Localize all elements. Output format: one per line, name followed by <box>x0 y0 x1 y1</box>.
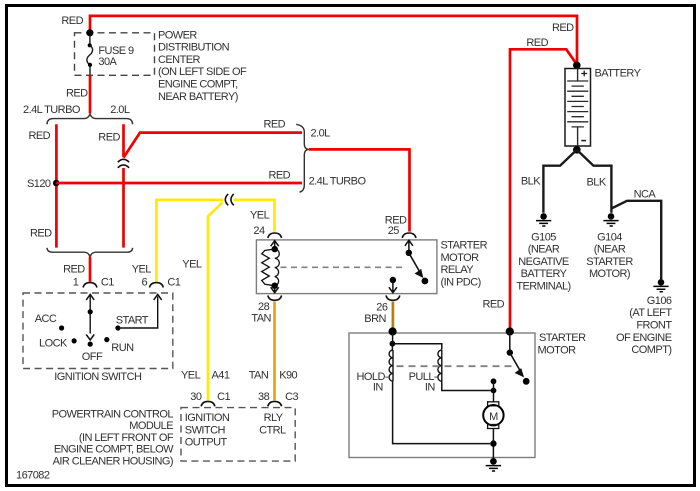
ignition switch wiper arrow down <box>86 335 94 341</box>
svg-text:OFF: OFF <box>82 351 103 363</box>
label RED top-left <box>61 15 83 27</box>
battery negative terminal dot <box>573 146 581 154</box>
label 2.4L TURBO at brace <box>309 175 367 187</box>
label RED on 2.0L horizontal <box>264 118 286 130</box>
wire: hold-in coil to motor ground side <box>393 381 490 443</box>
label LOCK <box>39 337 68 349</box>
svg-text:C1: C1 <box>167 277 180 289</box>
label 2.0L left <box>110 104 130 116</box>
fuse 9 30A symbol <box>87 35 93 75</box>
label POWERTRAIN CONTROL MODULE (IN LEFT FRONT OF ENGINE COMPT, BELOW AIR CLEANER HOUSING) <box>52 408 174 467</box>
wire: merged RED to relay pin 25 <box>309 149 410 231</box>
battery <box>565 69 591 147</box>
label 26 <box>376 301 388 313</box>
label 2.4L TURBO left <box>23 104 81 116</box>
svg-text:RED: RED <box>61 15 83 27</box>
svg-text:TAN: TAN <box>251 312 271 324</box>
ignition switch dashed box <box>23 293 173 369</box>
svg-text:IN: IN <box>373 381 384 393</box>
label TAN at PCM <box>249 370 269 382</box>
starter switch contact dot <box>523 378 530 385</box>
svg-text:MOTOR): MOTOR) <box>589 268 630 280</box>
svg-text:MOTOR: MOTOR <box>441 252 480 264</box>
svg-text:SWITCH: SWITCH <box>185 424 226 436</box>
pin 1 connector arc <box>83 283 97 288</box>
svg-text:CENTER: CENTER <box>158 54 201 66</box>
ignition pin 6 internal arrow <box>154 294 162 300</box>
svg-text:DISTRIBUTION: DISTRIBUTION <box>158 42 230 54</box>
splice arcs on YEL wire <box>225 194 234 205</box>
svg-text:ENGINE COMPT,: ENGINE COMPT, <box>158 79 238 91</box>
svg-text:30A: 30A <box>98 56 117 68</box>
svg-text:2.4L TURBO: 2.4L TURBO <box>23 104 81 116</box>
ignition switch pin 1 internal arrow <box>86 294 94 300</box>
svg-text:STARTER: STARTER <box>586 256 633 268</box>
svg-text:FRONT: FRONT <box>636 320 672 332</box>
wire: RED 2.0L diagonal and horizontal to brace <box>124 133 303 158</box>
label RED right branch <box>98 131 120 143</box>
split brace below fuse <box>47 114 133 124</box>
wire: pull-in coil to motor terminal <box>442 381 491 390</box>
label BRN <box>364 313 386 325</box>
svg-text:FUSE 9: FUSE 9 <box>98 45 134 57</box>
label RED below fuse <box>66 87 88 99</box>
svg-text:YEL: YEL <box>132 264 152 276</box>
svg-text:BLK: BLK <box>521 176 541 188</box>
svg-text:C1: C1 <box>217 391 230 403</box>
svg-text:A41: A41 <box>212 370 230 382</box>
svg-text:START: START <box>116 314 149 326</box>
starter switch blade <box>510 353 524 377</box>
svg-text:RED: RED <box>483 298 505 310</box>
wire: TAN relay pin 28 to PCM pin 38 <box>273 302 276 401</box>
splice arcs on 2.0L branch <box>118 159 129 168</box>
svg-text:RED: RED <box>29 130 51 142</box>
svg-text:RED: RED <box>552 22 574 34</box>
label 30 <box>190 391 202 403</box>
svg-text:S120: S120 <box>27 178 51 190</box>
starter solenoid branch junction dot <box>390 341 396 347</box>
svg-text:(AT LEFT: (AT LEFT <box>629 307 672 319</box>
ground G104 <box>603 213 618 226</box>
wire: motor to ground junction <box>492 429 494 462</box>
merge brace above ignition switch <box>47 248 133 257</box>
merge brace engine variants <box>296 124 309 192</box>
svg-text:(NEAR: (NEAR <box>528 244 560 256</box>
wire: battery to starter solenoid feed (RED) <box>510 49 577 330</box>
svg-text:RED: RED <box>526 37 548 49</box>
svg-text:RUN: RUN <box>111 342 134 354</box>
pin 6 connector arc <box>150 283 164 288</box>
label FUSE 9 / 30A <box>98 45 134 68</box>
starter motor box <box>349 333 535 458</box>
label G106 (AT LEFT FRONT OF ENGINE COMPT) <box>616 295 672 356</box>
label RLY CTRL <box>259 412 286 436</box>
starter motor relay box <box>256 240 437 294</box>
svg-text:TAN: TAN <box>249 370 269 382</box>
svg-text:38: 38 <box>258 391 270 403</box>
svg-text:BATTERY: BATTERY <box>595 68 642 80</box>
motor M1 <box>483 402 503 429</box>
label 2.0L at brace <box>311 127 331 139</box>
svg-text:M: M <box>489 411 498 423</box>
svg-text:NEGATIVE: NEGATIVE <box>518 256 569 268</box>
ignition START position dot <box>115 325 120 330</box>
label G105 (NEAR NEGATIVE BATTERY TERMINAL) <box>516 231 570 292</box>
svg-text:2.0L: 2.0L <box>311 127 331 139</box>
relay pin 26 dot <box>390 277 396 283</box>
pull-in coil <box>438 350 442 381</box>
ground G106 <box>653 279 668 292</box>
svg-text:BATTERY: BATTERY <box>521 268 568 280</box>
svg-text:COMPT): COMPT) <box>631 344 671 356</box>
ignition START contact wire to pin 6 <box>118 297 158 329</box>
label 6 <box>142 277 148 289</box>
wire: BLK battery negative to G104 <box>577 150 612 213</box>
label YEL mid <box>182 259 202 271</box>
wire: YEL from ignition switch pin 6 to relay pin 24 <box>156 200 274 282</box>
wire: pull-in coil feed <box>392 344 441 350</box>
powertrain control module dashed box <box>181 408 295 462</box>
svg-text:AIR CLEANER HOUSING): AIR CLEANER HOUSING) <box>53 456 173 468</box>
svg-text:POWER: POWER <box>158 29 197 41</box>
pin 28 connector arc <box>268 295 282 300</box>
starter actuation dashed line <box>397 365 514 367</box>
label BLK right <box>587 176 607 188</box>
svg-text:30: 30 <box>190 391 202 403</box>
pin 30 connector arc <box>201 401 215 406</box>
svg-text:(NEAR: (NEAR <box>594 244 626 256</box>
label PULL-IN <box>409 371 438 393</box>
label 25 <box>388 225 400 237</box>
wire: NCA branch to G106 <box>611 201 661 279</box>
svg-text:YEL: YEL <box>182 259 202 271</box>
wire: motor terminal to motor <box>493 381 495 402</box>
label RED on solenoid feed bottom <box>483 298 505 310</box>
svg-text:2.4L TURBO: 2.4L TURBO <box>309 175 367 187</box>
wire: RED 2.4L TURBO branch down to S120 and below <box>55 124 58 247</box>
svg-text:MODULE: MODULE <box>129 420 173 432</box>
ignition switch wiper line <box>89 296 91 334</box>
svg-text:1: 1 <box>73 277 79 289</box>
svg-text:K90: K90 <box>279 370 297 382</box>
svg-text:RLY: RLY <box>264 412 284 424</box>
battery B+ terminal dot <box>573 62 581 70</box>
label YEL at pin 6 <box>132 264 152 276</box>
motor terminal upper dot <box>491 378 497 384</box>
ignition LOCK position dot <box>72 338 77 343</box>
label RUN <box>111 342 134 354</box>
relay switch blade <box>409 253 423 277</box>
wire: YEL A41 branch to PCM pin 30 <box>208 202 223 400</box>
relay coil <box>262 249 280 286</box>
pin 38 connector arc <box>268 401 282 406</box>
label OFF <box>82 351 103 363</box>
motor ground junction dot <box>490 440 496 446</box>
svg-text:6: 6 <box>142 277 148 289</box>
label 167082 <box>16 469 50 481</box>
svg-text:ACC: ACC <box>35 313 57 325</box>
svg-text:YEL: YEL <box>250 209 270 221</box>
svg-text:RED: RED <box>98 131 120 143</box>
relay pin 25 internal arrow <box>405 240 413 250</box>
svg-text:G105: G105 <box>531 231 556 243</box>
wire: fuse output RED <box>89 75 92 113</box>
svg-text:TERMINAL): TERMINAL) <box>516 281 570 293</box>
wire: RED from S120 to merge brace (2.4L TURBO) <box>56 182 302 185</box>
label BATTERY <box>595 68 642 80</box>
label C1 at pin 6 <box>167 277 180 289</box>
starter solenoid RED entry dot <box>506 327 514 335</box>
label YEL at relay pin 24 <box>250 209 270 221</box>
relay switch contact dot <box>422 278 429 285</box>
wire: RED 2.0L branch vertical <box>122 124 125 247</box>
label RED at pin 1 <box>63 264 85 276</box>
svg-text:(ON LEFT SIDE OF: (ON LEFT SIDE OF <box>158 66 247 78</box>
svg-text:RED: RED <box>264 118 286 130</box>
svg-text:RED: RED <box>66 87 88 99</box>
relay coil top dot <box>272 246 278 252</box>
svg-text:RED: RED <box>63 264 85 276</box>
wire: BLK battery negative to G105 <box>543 150 576 213</box>
svg-text:IGNITION SWITCH: IGNITION SWITCH <box>54 371 142 383</box>
starter switch pivot dot <box>507 349 513 355</box>
label C3 <box>285 391 298 403</box>
splice S120 dot <box>53 180 60 187</box>
svg-text:G104: G104 <box>597 231 622 243</box>
wire: RED to ignition switch pin 1 <box>89 257 92 282</box>
svg-text:BLK: BLK <box>587 176 607 188</box>
relay pin 28 internal arrow <box>271 287 279 293</box>
svg-text:ENGINE COMPT, BELOW: ENGINE COMPT, BELOW <box>54 444 174 456</box>
ignition ACC position dot <box>59 325 64 330</box>
label RED top-right <box>552 22 574 34</box>
pin 24 connector arc <box>268 233 282 238</box>
label YEL at PCM <box>181 370 201 382</box>
svg-text:C3: C3 <box>285 391 298 403</box>
svg-text:24: 24 <box>253 225 265 237</box>
svg-text:STARTER: STARTER <box>441 240 488 252</box>
svg-text:RED: RED <box>30 228 52 240</box>
label BLK left <box>521 176 541 188</box>
ignition OFF position dot <box>88 342 93 347</box>
label IGNITION SWITCH <box>54 371 142 383</box>
svg-text:BRN: BRN <box>364 313 386 325</box>
wire: battery positive feed to fuse (RED, top) <box>90 16 577 64</box>
svg-text:MOTOR: MOTOR <box>538 344 577 356</box>
ground G105 <box>536 213 551 226</box>
svg-text:(IN PDC): (IN PDC) <box>441 277 481 289</box>
label IGNITION SWITCH OUTPUT <box>185 412 230 449</box>
svg-text:CTRL: CTRL <box>259 424 286 436</box>
relay coil bottom dot <box>272 283 278 289</box>
fuse F9 top junction dot <box>86 29 93 36</box>
starter case ground <box>486 458 501 471</box>
svg-text:OF ENGINE: OF ENGINE <box>616 332 672 344</box>
label RED on S120 horizontal <box>269 169 291 181</box>
svg-text:NEAR BATTERY): NEAR BATTERY) <box>158 91 238 103</box>
label HOLD-IN <box>357 371 389 393</box>
label STARTER MOTOR <box>538 332 587 356</box>
power distribution center dashed box <box>75 33 155 76</box>
svg-text:25: 25 <box>388 225 400 237</box>
svg-text:IN: IN <box>425 381 436 393</box>
relay actuation dashed line <box>281 266 405 268</box>
svg-text:RED: RED <box>269 169 291 181</box>
label G104 (NEAR STARTER MOTOR) <box>586 231 633 280</box>
motor terminal lower dot <box>491 388 497 394</box>
pin 26 connector arc <box>386 295 400 300</box>
label TAN <box>251 312 271 324</box>
svg-text:IGNITION: IGNITION <box>185 412 230 424</box>
starter BRN entry dot <box>389 327 397 335</box>
svg-text:NCA: NCA <box>634 188 657 200</box>
label C1 at PCM <box>217 391 230 403</box>
label 38 <box>258 391 270 403</box>
label 1 <box>73 277 79 289</box>
ignition switch wiper dot <box>88 309 93 314</box>
label 28 <box>258 301 270 313</box>
relay pin 24 internal arrow <box>271 241 279 247</box>
label NCA <box>634 188 657 200</box>
svg-text:RELAY: RELAY <box>441 264 475 276</box>
svg-text:167082: 167082 <box>16 469 50 481</box>
label START <box>116 314 149 326</box>
svg-text:G106: G106 <box>647 295 672 307</box>
pin 25 connector arc <box>402 233 416 238</box>
svg-text:STARTER: STARTER <box>539 332 586 344</box>
label RED on solenoid feed top <box>526 37 548 49</box>
label RED left branch <box>29 130 51 142</box>
label POWER DISTRIBUTION CENTER (ON LEFT SIDE OF ENGINE COMPT, NEAR BATTERY) <box>158 29 247 103</box>
relay switch pivot dot <box>406 250 412 256</box>
svg-text:POWERTRAIN CONTROL: POWERTRAIN CONTROL <box>52 408 174 420</box>
label 24 <box>253 225 265 237</box>
svg-text:YEL: YEL <box>181 370 201 382</box>
relay pin 26 internal arrow <box>389 283 397 293</box>
label K90 <box>279 370 297 382</box>
label C1 at pin 1 <box>101 277 114 289</box>
svg-text:LOCK: LOCK <box>39 337 68 349</box>
label RED at relay pin 25 <box>385 215 407 227</box>
label ACC <box>35 313 57 325</box>
wire: BRN relay pin 26 to starter motor <box>392 302 395 331</box>
label S120 <box>27 178 51 190</box>
label A41 <box>212 370 230 382</box>
starter switch feed line <box>509 332 511 350</box>
ignition RUN position dot <box>104 337 109 342</box>
svg-text:26: 26 <box>376 301 388 313</box>
svg-text:28: 28 <box>258 301 270 313</box>
svg-text:2.0L: 2.0L <box>110 104 130 116</box>
svg-text:OUTPUT: OUTPUT <box>185 437 228 449</box>
label RED below S120 <box>30 228 52 240</box>
wire: hold-in coil feed <box>392 332 394 344</box>
label STARTER MOTOR RELAY (IN PDC) <box>441 240 488 289</box>
svg-text:C1: C1 <box>101 277 114 289</box>
hold-in coil <box>389 344 393 382</box>
svg-text:(IN LEFT FRONT OF: (IN LEFT FRONT OF <box>79 432 174 444</box>
